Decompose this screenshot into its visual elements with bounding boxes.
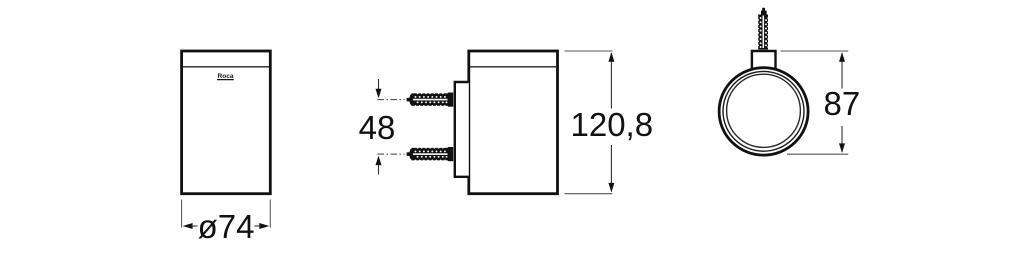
svg-text:87: 87 (824, 85, 861, 122)
svg-text:48: 48 (359, 109, 396, 146)
svg-text:ø74: ø74 (198, 208, 255, 245)
svg-text:120,8: 120,8 (571, 106, 654, 143)
